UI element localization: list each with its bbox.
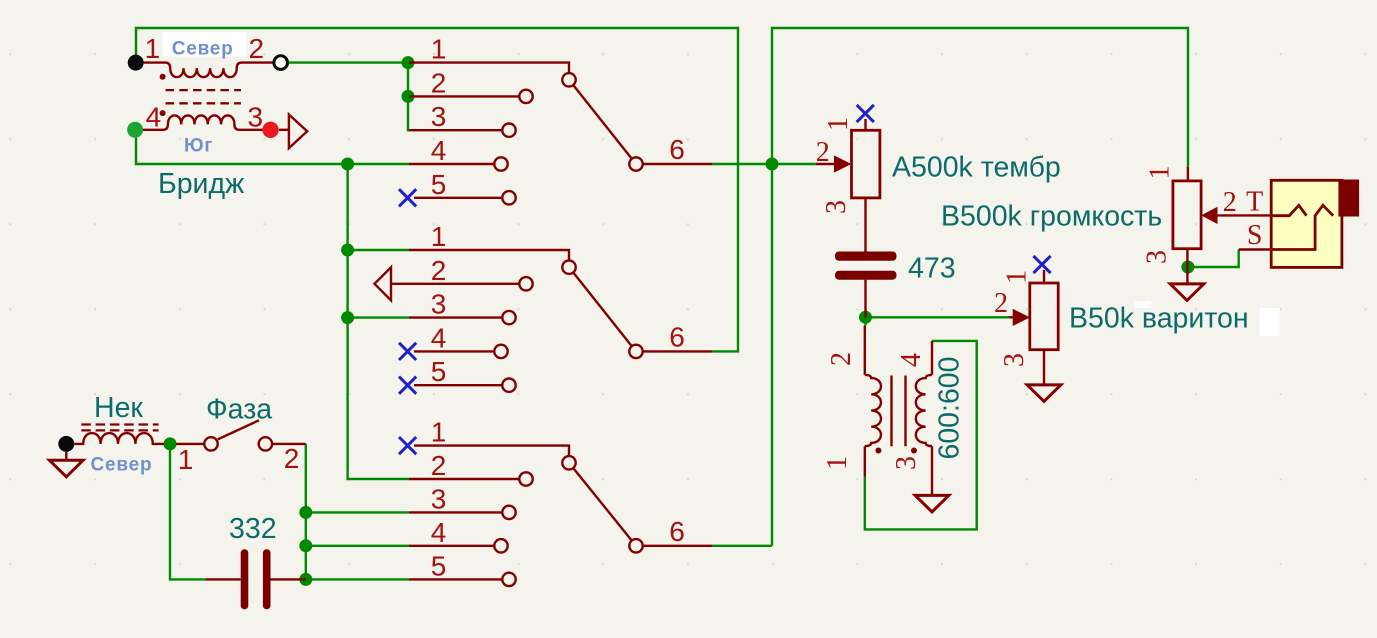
- jack sleeve contact: [1271, 205, 1333, 249]
- junction SW1 pin1: [402, 56, 415, 69]
- bridge phase dot north: [160, 74, 166, 80]
- svg-text:1: 1: [431, 34, 447, 65]
- SW1 arm: [573, 85, 632, 159]
- SW2 arm: [573, 272, 632, 346]
- bridge pin1 black wire dot: [128, 55, 144, 71]
- SW3 pin 6 lead: [643, 545, 713, 547]
- svg-text:2: 2: [994, 288, 1008, 319]
- svg-text:T: T: [1246, 187, 1263, 218]
- svg-text:3: 3: [821, 200, 852, 214]
- phase switch: [176, 420, 306, 450]
- svg-text:3: 3: [891, 456, 922, 470]
- svg-text:2: 2: [816, 137, 830, 168]
- SW3 pin 2: [409, 478, 519, 480]
- neck ground lead: [65, 452, 67, 460]
- svg-text:1: 1: [431, 417, 447, 448]
- T1 pin4 lead: [931, 341, 933, 375]
- wire bridge north start to SW2 pin6: [136, 28, 738, 351]
- T1 pin3 lead: [931, 446, 933, 495]
- no-connect X RV1 pin1: [857, 105, 874, 122]
- junction SW1 pin2: [402, 90, 415, 103]
- bridge phase dot south: [160, 110, 166, 116]
- wire bus to SW2/SW3: [348, 164, 409, 479]
- T1 pin1 lead: [864, 446, 866, 476]
- bridge pin3 red wire dot: [262, 122, 278, 138]
- neck coil: [74, 433, 164, 444]
- svg-text:4: 4: [431, 322, 447, 353]
- white patch small: [1135, 301, 1152, 308]
- jack body: [1271, 180, 1342, 267]
- T1 left coil: [865, 375, 881, 446]
- SW3 pivot circle: [562, 456, 575, 469]
- svg-text:Нек: Нек: [94, 392, 143, 424]
- svg-text:1: 1: [178, 444, 194, 475]
- svg-text:Фаза: Фаза: [206, 394, 272, 426]
- wire SW3 pin6 to right bus: [712, 545, 772, 547]
- junction volume pin3 jack S: [1181, 261, 1194, 274]
- neck pickup: [50, 425, 165, 477]
- SW3 pin 4: [409, 545, 494, 547]
- phase pin1 lead: [176, 443, 204, 445]
- RV2 ground symbol: [1027, 385, 1061, 402]
- no-connect X SW2 pin5: [399, 377, 416, 394]
- phase pin2 circle: [259, 437, 272, 450]
- svg-text:1: 1: [1002, 270, 1033, 284]
- RV1 wiper lead: [816, 163, 835, 165]
- RV2 wiper arrow: [1013, 309, 1030, 326]
- bridge humbucker pickup: [142, 63, 307, 149]
- svg-text:2: 2: [1223, 187, 1237, 218]
- phase arm: [218, 420, 259, 439]
- phase pin numbers: [178, 443, 300, 475]
- C2 leads: [205, 578, 306, 580]
- svg-text:2: 2: [431, 67, 447, 98]
- RV1 pin3 lead to C1: [864, 198, 866, 252]
- arrow head SW2 pin2: [375, 267, 392, 300]
- wire C1 junction to T1 pin2: [864, 317, 866, 325]
- svg-text:600:600: 600:600: [934, 356, 966, 459]
- wire right bus to volume pot RV3 pin1: [772, 28, 1188, 546]
- SW2 pivot circle: [562, 261, 575, 274]
- svg-text:6: 6: [669, 134, 685, 165]
- SW3 pin 3: [409, 511, 502, 513]
- wire stub SW3 pin3: [306, 511, 409, 513]
- bridge pin3 lead to arrow: [279, 129, 289, 131]
- junction right bus tone pot: [766, 158, 779, 171]
- svg-text:1: 1: [431, 221, 447, 252]
- T1 core lines: [890, 376, 892, 447]
- svg-text:6: 6: [669, 321, 685, 352]
- wire SW1 bus pins1-3: [408, 63, 409, 131]
- bridge pin numbers: [145, 33, 264, 133]
- neck ground symbol: [50, 460, 84, 477]
- bridge north coil: [142, 63, 272, 78]
- SW1 pin 4: [409, 163, 494, 165]
- svg-text:1: 1: [823, 117, 854, 131]
- no-connect X SW1 pin5: [399, 189, 416, 206]
- svg-text:1: 1: [822, 456, 853, 470]
- rotary switch SW1: [409, 63, 712, 205]
- SW2 pin 5: [414, 384, 502, 386]
- SW2 pin 6 lead: [643, 350, 713, 352]
- SW1 pin 6 lead: [643, 163, 713, 165]
- phase pin1 circle: [204, 437, 217, 450]
- SW2 pin numbers: [431, 221, 685, 387]
- no-connect X SW2 pin4: [399, 343, 416, 360]
- junction C1 varitone T1: [859, 311, 872, 324]
- SW2 pin 2 with arrow: [391, 283, 519, 285]
- svg-text:3: 3: [1142, 250, 1173, 264]
- RV3 ground symbol: [1170, 284, 1204, 301]
- transformer T1 600:600: [865, 326, 949, 512]
- T1 phase dot left: [875, 448, 881, 454]
- svg-text:Бридж: Бридж: [158, 168, 244, 200]
- no-connect X RV2 pin1: [1033, 256, 1050, 273]
- RV1 wiper arrow: [834, 155, 851, 172]
- wire stub SW2 pin1: [348, 249, 409, 251]
- SW1 pin 3: [409, 129, 502, 131]
- RV2 wiper lead: [1009, 316, 1013, 318]
- svg-text:1: 1: [1145, 166, 1176, 180]
- capacitor C2 332: [241, 549, 271, 609]
- SW3 pin 6 circle: [629, 539, 642, 552]
- RV2 body: [1030, 283, 1058, 350]
- SW3 pin 1: [414, 446, 569, 457]
- wire volume pot pin3 to jack S: [1188, 250, 1239, 268]
- svg-text:4: 4: [896, 353, 927, 367]
- varitone pot RV2 B50k: [1009, 270, 1061, 401]
- wire bridge north finish to SW1 pin1: [289, 61, 409, 63]
- svg-text:5: 5: [431, 550, 447, 581]
- svg-text:2: 2: [826, 352, 857, 366]
- wire T1 pin4 loop to T1 pin1: [865, 341, 977, 530]
- svg-text:B50k варитон: B50k варитон: [1069, 303, 1249, 335]
- SW3 arm: [573, 468, 632, 541]
- bridge label Север white box: [163, 32, 247, 57]
- jack S pin lead: [1239, 248, 1272, 250]
- volume pot RV3 B500k: [1170, 167, 1272, 301]
- RV1 body: [852, 130, 880, 198]
- RV3 wiper line to jack T: [1218, 214, 1273, 216]
- svg-text:2: 2: [431, 450, 447, 481]
- SW3 pin numbers: [431, 417, 685, 582]
- RV1 pin1 lead: [864, 119, 866, 130]
- svg-text:2: 2: [249, 33, 265, 64]
- bridge pin2 white wire dot: [274, 56, 288, 70]
- SW1 pin 5: [414, 197, 502, 199]
- neck core dashes: [81, 423, 158, 425]
- tone pot RV1 A500k: [816, 119, 880, 252]
- svg-text:332: 332: [229, 513, 277, 545]
- RV3 wiper arrow: [1201, 207, 1217, 224]
- T1 right coil: [916, 375, 932, 446]
- svg-text:B500k громкость: B500k громкость: [941, 201, 1162, 233]
- junction neck pickup phase: [164, 437, 177, 450]
- svg-text:A500k тембр: A500k тембр: [892, 152, 1061, 184]
- SW2 pin 4: [414, 350, 494, 352]
- junction SW3 pin5 C2: [299, 573, 312, 586]
- RV2 pin1 lead: [1043, 270, 1045, 283]
- jack tip contact: [1273, 205, 1307, 215]
- svg-text:3: 3: [999, 353, 1030, 367]
- SW1 pin 1: [409, 63, 569, 74]
- svg-text:Север: Север: [91, 454, 153, 475]
- svg-text:S: S: [1247, 220, 1263, 251]
- jack sleeve block: [1338, 180, 1359, 217]
- svg-text:Юг: Юг: [184, 136, 213, 157]
- capacitor C1 473: [835, 252, 897, 280]
- wire C1 junction to varitone RV2: [866, 316, 1010, 318]
- svg-text:2: 2: [431, 255, 447, 286]
- SW2 pin 3: [409, 316, 502, 318]
- wire stub SW2 pin3: [348, 316, 409, 318]
- svg-text:1: 1: [145, 33, 161, 64]
- svg-text:3: 3: [431, 483, 447, 514]
- wire SW1 pin6 to tone pot RV1: [712, 163, 816, 165]
- RV3 pin3 lead: [1186, 249, 1188, 284]
- junction SW3 pin4: [299, 539, 312, 552]
- neck pin black wire dot: [58, 436, 74, 452]
- svg-text:2: 2: [284, 443, 300, 474]
- svg-text:473: 473: [908, 253, 956, 285]
- junction SW2 pin1: [341, 244, 354, 257]
- junction bridge south bus: [341, 158, 354, 171]
- svg-text:5: 5: [431, 169, 447, 200]
- junction SW3 pin3: [299, 506, 312, 519]
- wire C2 right to SW3 pin5: [306, 578, 409, 580]
- svg-text:3: 3: [248, 102, 264, 133]
- white patch large: [1260, 308, 1280, 336]
- svg-text:5: 5: [431, 356, 447, 387]
- RV3 pin1 lead: [1187, 167, 1189, 181]
- bridge pin4 green wire dot: [127, 122, 143, 138]
- SW1 pin 2: [409, 95, 519, 97]
- SW1 pivot circle: [562, 73, 575, 86]
- RV3 body: [1173, 181, 1201, 249]
- T1 ground symbol: [915, 495, 949, 512]
- bridge pin3 arrow: [289, 115, 307, 149]
- SW1 pin 6 circle: [629, 157, 642, 170]
- rotary switch SW3: [409, 446, 712, 587]
- svg-text:3: 3: [431, 101, 447, 132]
- wire bridge south to SW1 pin4: [136, 138, 409, 164]
- SW1 pin numbers: [431, 34, 685, 200]
- phase pin2 lead: [272, 443, 306, 445]
- svg-text:4: 4: [431, 135, 447, 166]
- SW3 pin 5: [409, 578, 502, 580]
- wire phase switch to bus: [305, 444, 307, 580]
- T1 phase dot right: [911, 448, 917, 454]
- wire neck junction down to C2: [170, 444, 205, 580]
- rotary switch SW2: [375, 250, 713, 392]
- svg-text:3: 3: [431, 289, 447, 320]
- bridge south coil: [142, 115, 262, 129]
- svg-text:Север: Север: [172, 39, 234, 60]
- C1 bottom lead: [864, 280, 866, 318]
- wire stub SW3 pin4: [306, 545, 409, 547]
- svg-text:4: 4: [146, 102, 162, 133]
- T1 pin2 lead: [864, 326, 866, 375]
- svg-text:6: 6: [669, 516, 685, 547]
- no-connect X SW3 pin1: [399, 437, 416, 454]
- SW2 pin 1: [409, 250, 569, 261]
- junction SW2 pin3: [341, 311, 354, 324]
- bridge core dashes: [166, 89, 241, 91]
- RV2 pin3 lead: [1043, 350, 1045, 385]
- SW2 pin 6 circle: [629, 345, 642, 358]
- svg-text:4: 4: [431, 517, 447, 548]
